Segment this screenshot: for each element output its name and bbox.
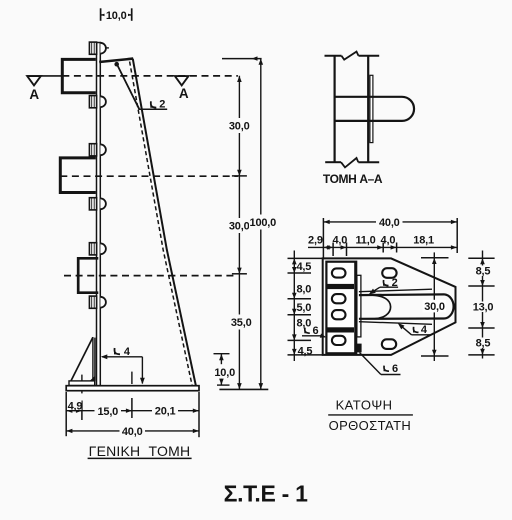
- plan label L6 left with leader: [302, 325, 326, 338]
- bolt 6 (hex nut + dome head): [89, 296, 106, 308]
- svg-text:6: 6: [392, 363, 398, 375]
- svg-text:35,0: 35,0: [231, 317, 252, 329]
- section line A-A dashed: [62, 75, 238, 77]
- svg-text:13,0: 13,0: [473, 301, 494, 313]
- svg-text:ΓΕΝΙΚΗ ΤΟΜΗ: ΓΕΝΙΚΗ ΤΟΜΗ: [89, 443, 191, 459]
- svg-text:8,0: 8,0: [296, 317, 311, 329]
- svg-text:18,1: 18,1: [413, 234, 434, 246]
- svg-text:4,0: 4,0: [381, 234, 396, 246]
- svg-text:A: A: [29, 87, 39, 102]
- section A-A back flat bar: [370, 75, 373, 142]
- bolt 3 (hex nut + dome head): [89, 144, 105, 156]
- svg-text:10,0: 10,0: [106, 10, 127, 22]
- anchor centerline x=131.9: [131, 372, 133, 384]
- right outer dimension 100,0: [222, 56, 277, 389]
- rail 3 center dashed line: [64, 275, 238, 277]
- plan right chain 8,5/13,0/8,5: [468, 251, 494, 359]
- plate slot hole 2: [332, 294, 346, 303]
- bolt 2 (hex nut + dome head): [89, 96, 105, 108]
- plate slot hole 4: [332, 336, 346, 345]
- svg-text:ΚΑΤΟΨΗ: ΚΑΤΟΨΗ: [336, 398, 393, 413]
- plan left chain 4,5/8,0/5,0/8,0/4,5: [288, 251, 323, 362]
- section marker triangle A left: [27, 76, 41, 102]
- plate slot hole 3: [332, 310, 346, 319]
- section A-A top edge with break: [325, 52, 380, 60]
- gusset triangle: [69, 337, 95, 385]
- plan top dimension 40,0: [323, 216, 457, 259]
- svg-text:5,0: 5,0: [296, 302, 311, 314]
- svg-text:ΟΡΘΟΣΤΑΤΗ: ΟΡΘΟΣΤΑΤΗ: [329, 418, 412, 433]
- stiffener bar edge-on: [357, 275, 361, 337]
- weld bar 1 (black): [327, 284, 354, 289]
- oval hole right bottom: [382, 339, 396, 349]
- rail 3 (lower small block): [78, 258, 98, 292]
- plate slot hole 1: [332, 268, 346, 277]
- shared bottom bar of right dims: [219, 388, 268, 390]
- post body in plan: rounded nose: [445, 294, 454, 318]
- plan vertical dimension 30,0: [421, 252, 449, 361]
- section line A-A solid left part: [27, 75, 62, 77]
- section A-A rail spacer with round head: [335, 97, 414, 121]
- bottom dimension row 40,0: [66, 425, 199, 438]
- svg-text:30,0: 30,0: [424, 301, 445, 313]
- svg-text:A: A: [179, 86, 189, 101]
- svg-text:11,0: 11,0: [355, 234, 375, 246]
- svg-text:2,9: 2,9: [308, 235, 323, 247]
- section A-A bottom edge with break: [325, 158, 379, 167]
- svg-text:8,5: 8,5: [476, 337, 491, 349]
- section A-A left flange line: [334, 56, 336, 162]
- label L2 (angle 2): [138, 98, 167, 110]
- bottom dimension row 4,9 / 15,0 / 20,1: [66, 392, 199, 437]
- anchor centerline x=81.9: [81, 375, 83, 394]
- rail 1 (top W-beam block): [62, 59, 96, 92]
- bolt 1 (hex nut + dome head): [89, 42, 109, 54]
- svg-text:20,1: 20,1: [155, 405, 176, 417]
- post back slanted edge: [133, 59, 196, 386]
- post body in plan: top edge lines: [359, 289, 445, 295]
- svg-text:Σ.Τ.Ε - 1: Σ.Τ.Ε - 1: [224, 481, 308, 507]
- plan label L2 with leader: [369, 277, 399, 294]
- post hidden dashed edge: [130, 62, 193, 386]
- svg-text:30,0: 30,0: [229, 121, 250, 133]
- plan label L4 with leader: [398, 323, 430, 336]
- rail 2 (middle block): [60, 158, 96, 193]
- weld bar 2 (black): [327, 327, 354, 332]
- bolt 5 (hex nut + dome head): [89, 243, 105, 255]
- plan outline polygon: [323, 258, 456, 355]
- post top edge: [99, 59, 133, 62]
- section A-A right flange line: [367, 56, 369, 162]
- title S.T.E - 1: [224, 481, 308, 507]
- oval hole right top: [382, 268, 396, 278]
- svg-text:100,0: 100,0: [250, 217, 277, 229]
- post body bend arc: [373, 295, 391, 319]
- plan chain dimension 2,9/4,0/11,0/4,0/18,1: [308, 234, 457, 256]
- post body in plan: bottom edge lines: [359, 319, 445, 325]
- post front plate: [97, 43, 101, 386]
- post flange fold line with dot: [114, 62, 139, 109]
- small dimension 10,0 above base: [214, 354, 236, 385]
- plan label L6 bottom with leader: [360, 353, 401, 376]
- svg-text:40,0: 40,0: [122, 426, 143, 438]
- caption KATOPSH / ORTHOSTATH: [328, 398, 413, 434]
- svg-text:40,0: 40,0: [379, 217, 400, 229]
- svg-text:4,5: 4,5: [296, 261, 311, 273]
- svg-text:30,0: 30,0: [229, 221, 250, 233]
- top width dimension 10,0: [101, 8, 132, 22]
- bolt 4 (hex nut + dome head): [89, 198, 105, 210]
- svg-text:ΤΟΜΗ Α–Α: ΤΟΜΗ Α–Α: [323, 172, 383, 186]
- svg-text:8,0: 8,0: [296, 283, 311, 295]
- section marker triangle A right: [175, 76, 189, 101]
- plan front plate: [326, 262, 356, 354]
- svg-text:8,5: 8,5: [476, 265, 491, 277]
- label L4 with leader arrows: [101, 346, 145, 385]
- svg-text:4,5: 4,5: [298, 346, 313, 358]
- caption TOMH A-A: [323, 172, 383, 186]
- svg-text:4,0: 4,0: [332, 234, 347, 246]
- svg-text:2: 2: [159, 98, 165, 110]
- right dimension chain: inner line (30,0/30,0/35,0): [226, 76, 255, 390]
- svg-text:15,0: 15,0: [97, 406, 118, 418]
- weld square (black) at plate bottom: [355, 344, 362, 353]
- rail 2 center dashed line: [60, 175, 238, 177]
- caption GENIKH TOMH: [88, 443, 192, 459]
- base plate: [66, 386, 199, 391]
- svg-text:10,0: 10,0: [214, 367, 235, 379]
- svg-text:4,9: 4,9: [68, 401, 83, 413]
